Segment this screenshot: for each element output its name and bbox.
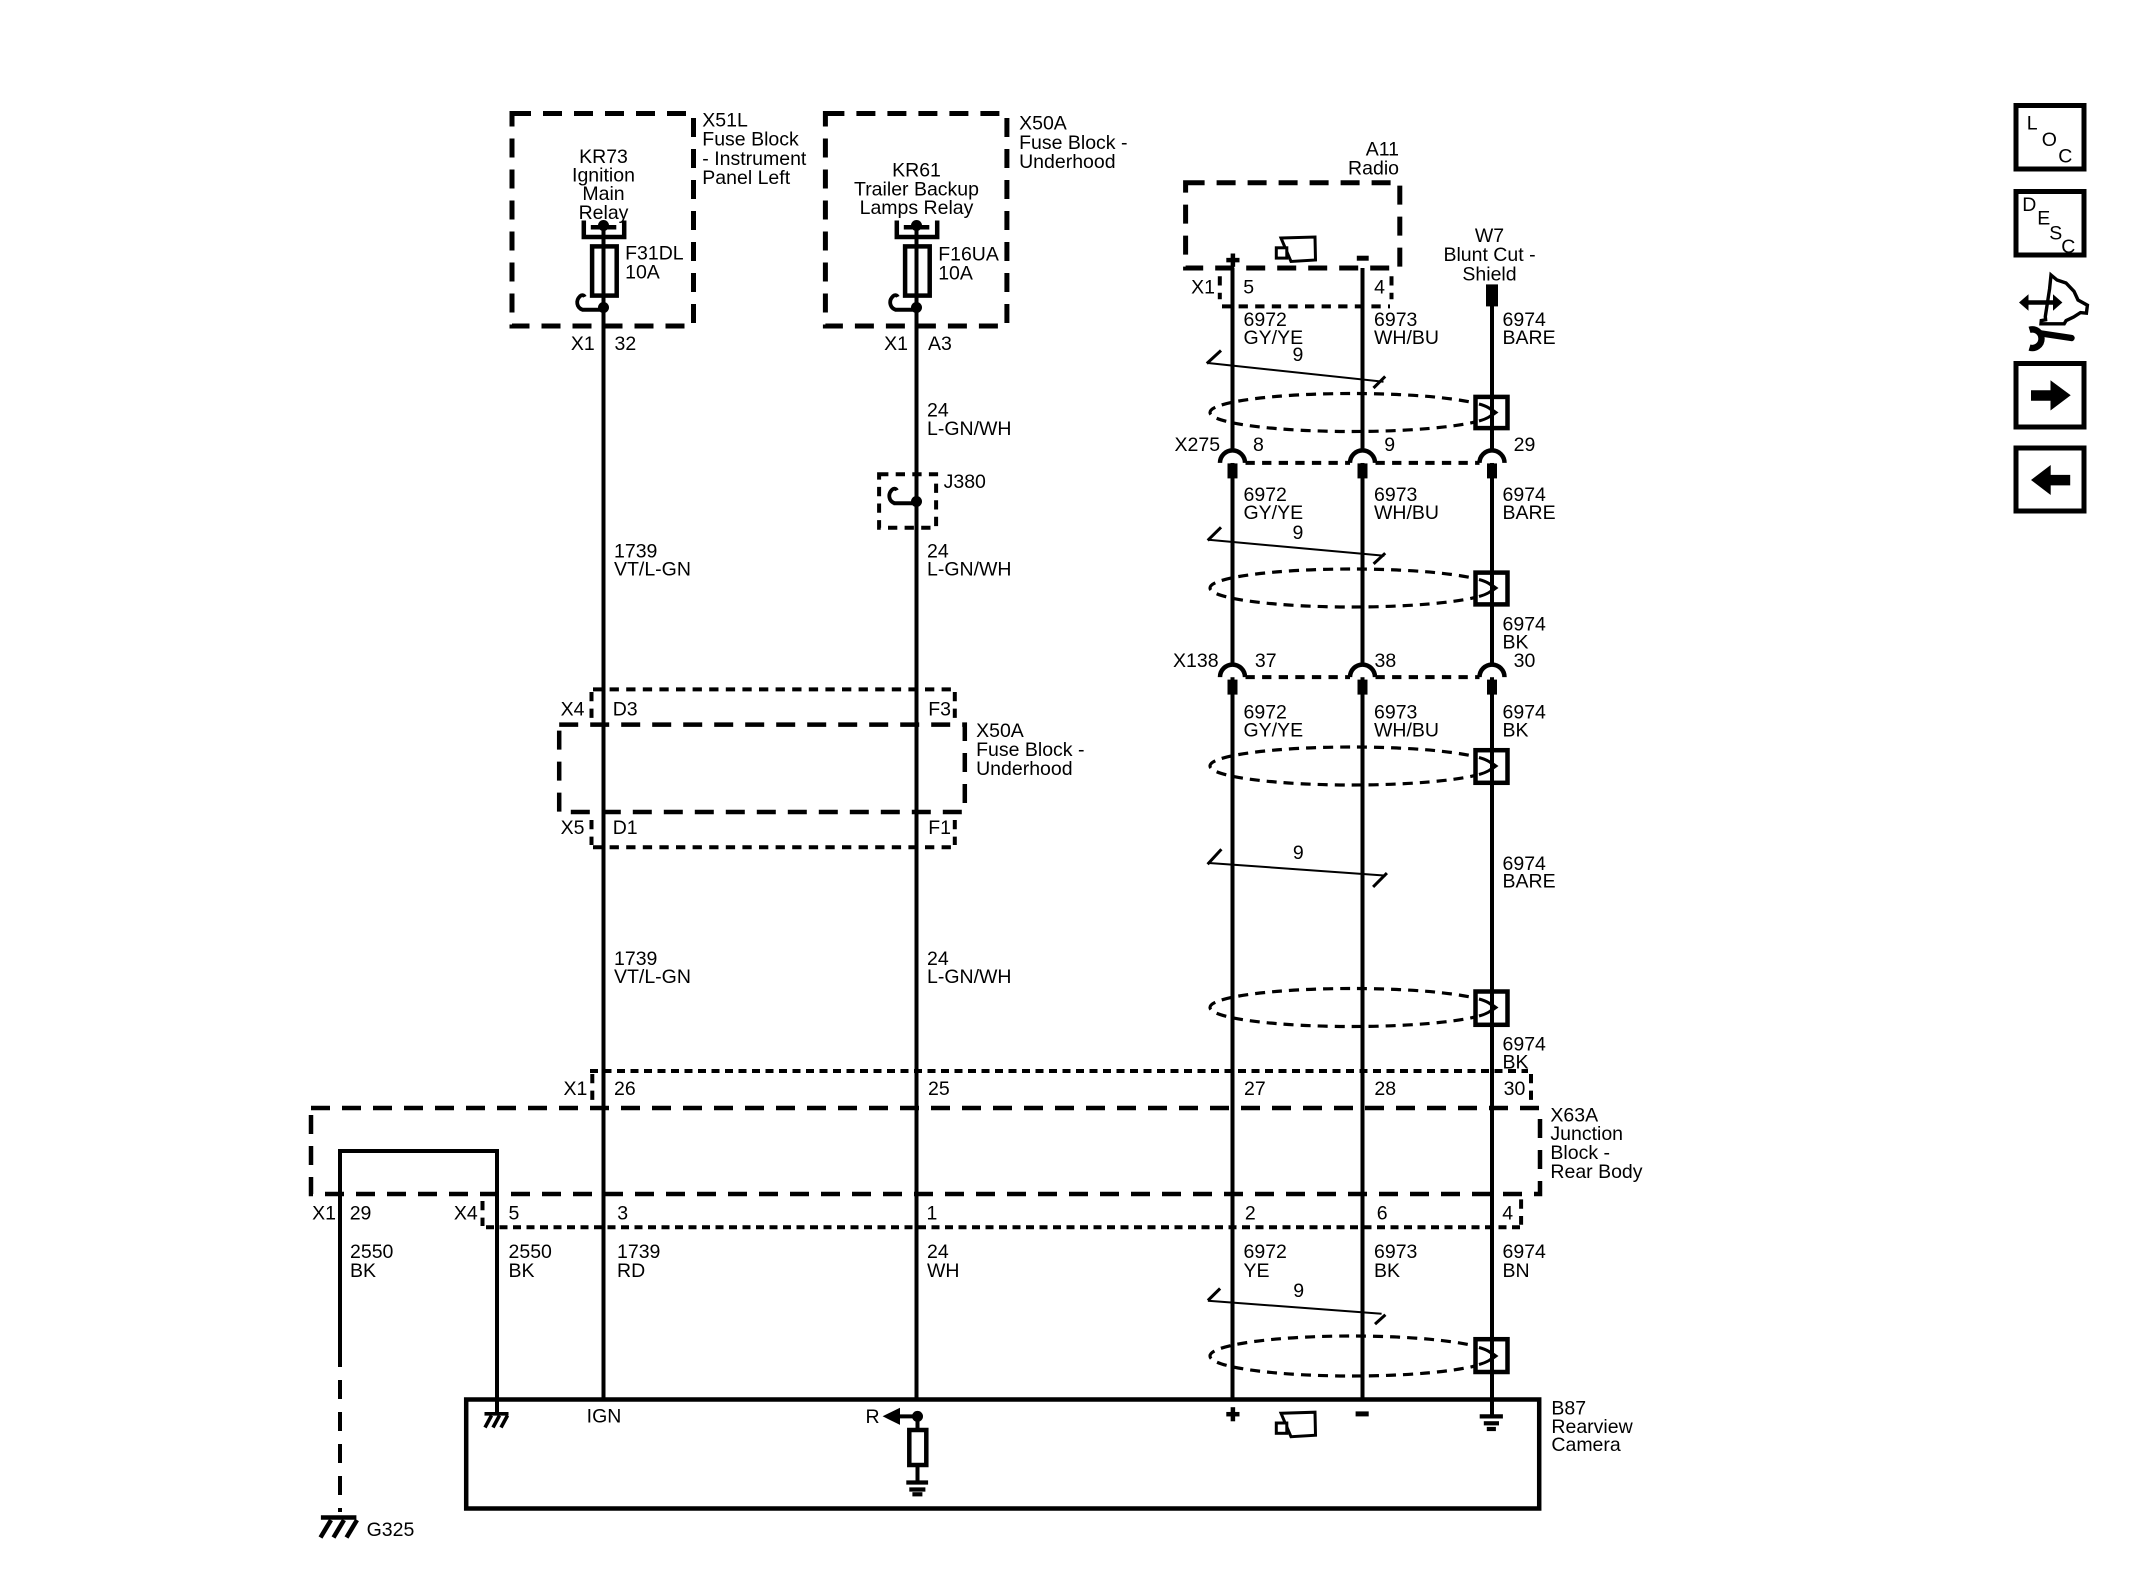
svg-text:9: 9 — [1293, 842, 1304, 864]
svg-text:C: C — [2058, 146, 2072, 168]
svg-text:X275: X275 — [1175, 434, 1221, 456]
svg-text:Rear Body: Rear Body — [1550, 1161, 1642, 1183]
svg-text:L-GN/WH: L-GN/WH — [927, 966, 1012, 988]
svg-text:BN: BN — [1503, 1260, 1530, 1282]
svg-text:9: 9 — [1293, 344, 1304, 366]
svg-text:D1: D1 — [613, 817, 638, 839]
svg-text:Lamps Relay: Lamps Relay — [860, 197, 974, 219]
svg-text:BARE: BARE — [1503, 327, 1556, 349]
svg-text:29: 29 — [1514, 434, 1536, 456]
svg-text:YE: YE — [1244, 1260, 1270, 1282]
svg-text:10A: 10A — [625, 262, 660, 284]
svg-text:L-GN/WH: L-GN/WH — [927, 418, 1012, 440]
svg-text:X1: X1 — [571, 333, 595, 355]
svg-text:37: 37 — [1255, 650, 1277, 672]
svg-text:GY/YE: GY/YE — [1244, 502, 1304, 524]
svg-text:8: 8 — [1253, 434, 1264, 456]
svg-text:Camera: Camera — [1551, 1434, 1621, 1456]
svg-text:Radio: Radio — [1348, 158, 1399, 180]
svg-text:D3: D3 — [613, 699, 638, 721]
svg-text:D: D — [2022, 194, 2036, 216]
svg-text:BK: BK — [350, 1260, 376, 1282]
svg-text:6: 6 — [1377, 1203, 1388, 1225]
svg-text:25: 25 — [928, 1078, 950, 1100]
svg-text:BARE: BARE — [1503, 871, 1556, 893]
svg-text:5: 5 — [509, 1203, 520, 1225]
svg-text:3: 3 — [617, 1203, 628, 1225]
svg-text:X1: X1 — [884, 333, 908, 355]
svg-text:4: 4 — [1502, 1203, 1513, 1225]
svg-text:X1: X1 — [564, 1078, 588, 1100]
svg-text:9: 9 — [1293, 522, 1304, 544]
svg-text:Underhood: Underhood — [976, 758, 1073, 780]
svg-text:A3: A3 — [928, 333, 952, 355]
svg-text:X138: X138 — [1173, 650, 1219, 672]
svg-text:Underhood: Underhood — [1019, 151, 1116, 173]
svg-text:Shield: Shield — [1462, 263, 1516, 285]
svg-text:BK: BK — [509, 1260, 535, 1282]
svg-text:30: 30 — [1504, 1078, 1526, 1100]
svg-text:4: 4 — [1374, 276, 1385, 298]
svg-text:WH/BU: WH/BU — [1374, 502, 1439, 524]
svg-text:9: 9 — [1384, 434, 1395, 456]
svg-text:X1: X1 — [1191, 276, 1215, 298]
svg-text:X1: X1 — [312, 1203, 336, 1225]
svg-text:X4: X4 — [454, 1203, 478, 1225]
svg-text:9: 9 — [1293, 1280, 1304, 1302]
svg-text:32: 32 — [615, 333, 637, 355]
svg-text:30: 30 — [1514, 650, 1536, 672]
svg-text:Panel Left: Panel Left — [702, 167, 790, 189]
svg-text:C: C — [2061, 236, 2075, 258]
svg-text:Relay: Relay — [579, 202, 629, 224]
svg-text:G325: G325 — [367, 1519, 415, 1541]
svg-text:X4: X4 — [561, 699, 585, 721]
svg-text:IGN: IGN — [587, 1405, 622, 1427]
svg-text:BK: BK — [1503, 719, 1529, 741]
svg-text:GY/YE: GY/YE — [1244, 719, 1304, 741]
svg-text:O: O — [2042, 129, 2057, 151]
svg-text:BARE: BARE — [1503, 502, 1556, 524]
svg-text:J380: J380 — [944, 471, 986, 493]
svg-text:27: 27 — [1244, 1078, 1266, 1100]
svg-text:F3: F3 — [928, 699, 951, 721]
svg-text:38: 38 — [1375, 650, 1397, 672]
svg-text:1: 1 — [927, 1203, 938, 1225]
svg-text:WH/BU: WH/BU — [1374, 719, 1439, 741]
svg-text:E: E — [2037, 207, 2050, 229]
svg-text:VT/L-GN: VT/L-GN — [614, 559, 691, 581]
svg-text:28: 28 — [1374, 1078, 1396, 1100]
svg-text:L: L — [2027, 113, 2038, 135]
svg-text:26: 26 — [614, 1078, 636, 1100]
svg-text:RD: RD — [617, 1260, 645, 1282]
svg-text:WH/BU: WH/BU — [1374, 327, 1439, 349]
svg-text:2: 2 — [1245, 1203, 1256, 1225]
svg-text:5: 5 — [1243, 276, 1254, 298]
svg-text:WH: WH — [927, 1260, 960, 1282]
svg-text:F1: F1 — [928, 817, 951, 839]
svg-text:X5: X5 — [561, 817, 585, 839]
svg-text:VT/L-GN: VT/L-GN — [614, 966, 691, 988]
svg-text:R: R — [866, 1406, 880, 1428]
svg-text:BK: BK — [1374, 1260, 1400, 1282]
svg-text:29: 29 — [350, 1203, 372, 1225]
svg-text:BK: BK — [1503, 1051, 1529, 1073]
svg-text:10A: 10A — [938, 263, 973, 285]
svg-text:L-GN/WH: L-GN/WH — [927, 559, 1012, 581]
